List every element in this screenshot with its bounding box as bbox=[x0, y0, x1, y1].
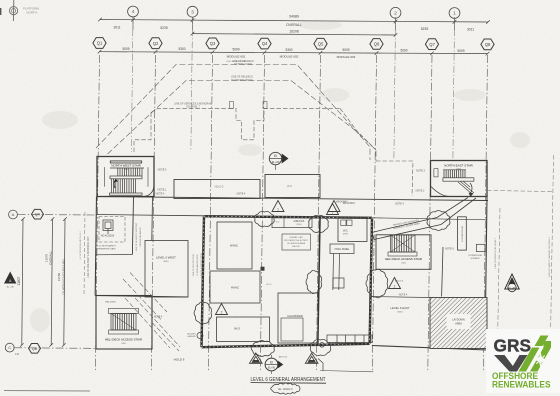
dashed line of m/deck (east inner) bbox=[498, 208, 501, 345]
room HELI DECK ACCESS STAIR west bbox=[96, 296, 152, 350]
NE stair wall recess bbox=[434, 169, 438, 177]
ledge line bbox=[96, 254, 133, 256]
level 6 west boundary bbox=[145, 241, 188, 298]
revision cloud bbox=[427, 211, 450, 231]
NW stair treads upper bbox=[110, 168, 144, 179]
machinery space heavy wall outline bbox=[202, 216, 373, 347]
grid bubble 1 bbox=[449, 8, 460, 19]
grid bubble A bbox=[9, 210, 18, 219]
grid bubble QA bbox=[32, 209, 44, 219]
scan smudges bbox=[30, 20, 530, 332]
HVAC panel box bbox=[330, 244, 354, 254]
grid bubble 4 bbox=[128, 6, 139, 17]
wall x152 bbox=[151, 197, 154, 241]
monorail hanger tabs bbox=[229, 102, 233, 109]
wall box bbox=[261, 267, 265, 271]
helideck platform dashed outline (inner) bbox=[108, 81, 377, 162]
room HVAC lower bbox=[210, 271, 260, 303]
level 6 east boundary line bbox=[370, 297, 430, 298]
NW stairwell sides bbox=[104, 167, 106, 187]
grid bubble C bbox=[5, 343, 14, 352]
centreline grids from bubbles 4,3,2,1 bbox=[131, 17, 133, 152]
revision triangle bbox=[216, 304, 228, 315]
left dimension line 11570 overall bbox=[51, 219, 52, 345]
section marker B mid bbox=[269, 152, 288, 170]
left dimension line 12150 c/l modules bbox=[64, 219, 65, 345]
scan edge line bottom-left bbox=[4, 390, 90, 393]
hold opening west bbox=[174, 180, 260, 199]
grid bubble Q2 bbox=[149, 38, 162, 49]
muster triangle east bbox=[505, 274, 519, 292]
west lower boundary line bbox=[95, 296, 188, 298]
grid line A horizontal bbox=[18, 214, 97, 217]
wall texture dashes bbox=[202, 216, 373, 347]
locker room bbox=[458, 217, 467, 250]
room HVAC upper bbox=[217, 222, 252, 269]
wall circle marker bbox=[320, 343, 325, 348]
NW stair treads lower bbox=[110, 179, 143, 195]
room AIRLOCK bbox=[272, 218, 312, 228]
GRS logo white backing bbox=[486, 329, 560, 393]
electrical switchboard box bbox=[327, 335, 372, 343]
east room boundary vertical bbox=[442, 247, 443, 297]
revision cloud bbox=[194, 302, 212, 324]
revision triangle nested 2 bbox=[305, 353, 318, 363]
grid bubble Q8 bbox=[481, 39, 494, 50]
GRS logo star bbox=[533, 352, 548, 368]
bottom extension line bbox=[320, 371, 373, 372]
vertical extension lines from bubbles bbox=[132, 17, 134, 30]
dashed line of walkway west bbox=[84, 212, 85, 296]
room NORTH EAST STAIR bbox=[431, 161, 488, 197]
revision triangle bbox=[389, 278, 401, 289]
NE stair lower flight bbox=[458, 181, 474, 197]
note box bbox=[282, 234, 311, 250]
helideck outline dashed SW bbox=[123, 273, 180, 352]
muster triangle west bbox=[4, 272, 16, 284]
room HELI DECK ACCESS STAIR east bbox=[376, 235, 431, 269]
NW stair top hatch strip bbox=[110, 161, 142, 163]
wall x133 bbox=[132, 197, 133, 255]
no access hatch box bbox=[103, 220, 113, 234]
overall dimension line 34989 bbox=[100, 20, 488, 23]
revision cloud bbox=[366, 269, 388, 298]
deck line upper bbox=[97, 197, 489, 201]
revision cloud bbox=[251, 341, 274, 357]
grid bubble 3 bbox=[187, 6, 198, 17]
helideck netting dashed outline (outer) bbox=[96, 65, 370, 161]
platform north compass bbox=[10, 0, 18, 21]
room NORTH WEST STAIR bbox=[97, 157, 154, 197]
grid bubble Q3 bbox=[206, 38, 219, 49]
west outer wall bbox=[95, 197, 96, 296]
GRS logo chevron dark W bbox=[494, 355, 517, 372]
grid line C horizontal bbox=[14, 347, 95, 350]
deck line lower (east light) bbox=[372, 218, 487, 220]
diagonal walkway band to NE stair bbox=[372, 198, 476, 240]
revision triangle bbox=[327, 204, 339, 215]
room W.O bbox=[217, 317, 270, 342]
grid lines Q1-Q8 vertical bbox=[95, 55, 99, 372]
NW stair arrow bbox=[114, 180, 116, 189]
grid bubble Q7 bbox=[425, 39, 438, 50]
NE stair door arc bbox=[431, 187, 450, 197]
grid bubble 2 bbox=[390, 7, 401, 18]
room W.C bbox=[338, 218, 367, 242]
grid bubble QB bbox=[29, 344, 41, 354]
module dimension line bbox=[100, 52, 488, 54]
storeroom screen bbox=[476, 244, 485, 251]
scan edge tick top-left bbox=[0, 8, 1, 15]
monorail / services dashed contour bbox=[151, 108, 229, 112]
grid bubble Q1 bbox=[93, 38, 106, 49]
revision cloud bbox=[255, 211, 274, 226]
dashed link top east bbox=[487, 191, 554, 192]
GRS logo green stripes bbox=[519, 348, 540, 372]
laydown area hatched bbox=[430, 298, 487, 349]
grid bubble Q4 bbox=[258, 38, 271, 49]
no access dashed zone bbox=[99, 217, 125, 243]
revision cloud bbox=[309, 216, 329, 233]
revision triangle bbox=[328, 201, 340, 212]
title cloud EL HOLD 3 bbox=[271, 383, 300, 394]
east deck bottom edge bbox=[372, 346, 487, 351]
grid bubble Q6 bbox=[370, 39, 383, 50]
revision cloud bbox=[310, 340, 330, 356]
west heli stair treads bbox=[109, 309, 139, 335]
dashed line east outer bbox=[551, 155, 554, 340]
duct corridor lines bbox=[333, 254, 344, 291]
section marker B bottom bbox=[265, 355, 283, 374]
left dimension line 11807 bbox=[22, 219, 23, 345]
east outer wall bbox=[485, 197, 487, 348]
revision triangle nested 1 bbox=[249, 353, 262, 363]
dimension line 16208 bbox=[193, 34, 396, 35]
deck line lower (west light) bbox=[96, 215, 204, 216]
NW stair door arc bbox=[144, 185, 154, 197]
east heli stair treads bbox=[388, 235, 417, 256]
hold opening east bbox=[265, 175, 320, 198]
room CALORIFIER bbox=[278, 293, 318, 343]
revision triangle bbox=[272, 201, 284, 212]
revision cloud bbox=[306, 270, 322, 293]
grid bubble Q5 bbox=[314, 38, 327, 49]
access ladder symbol bbox=[197, 333, 203, 339]
NE stair treads bbox=[443, 170, 474, 181]
